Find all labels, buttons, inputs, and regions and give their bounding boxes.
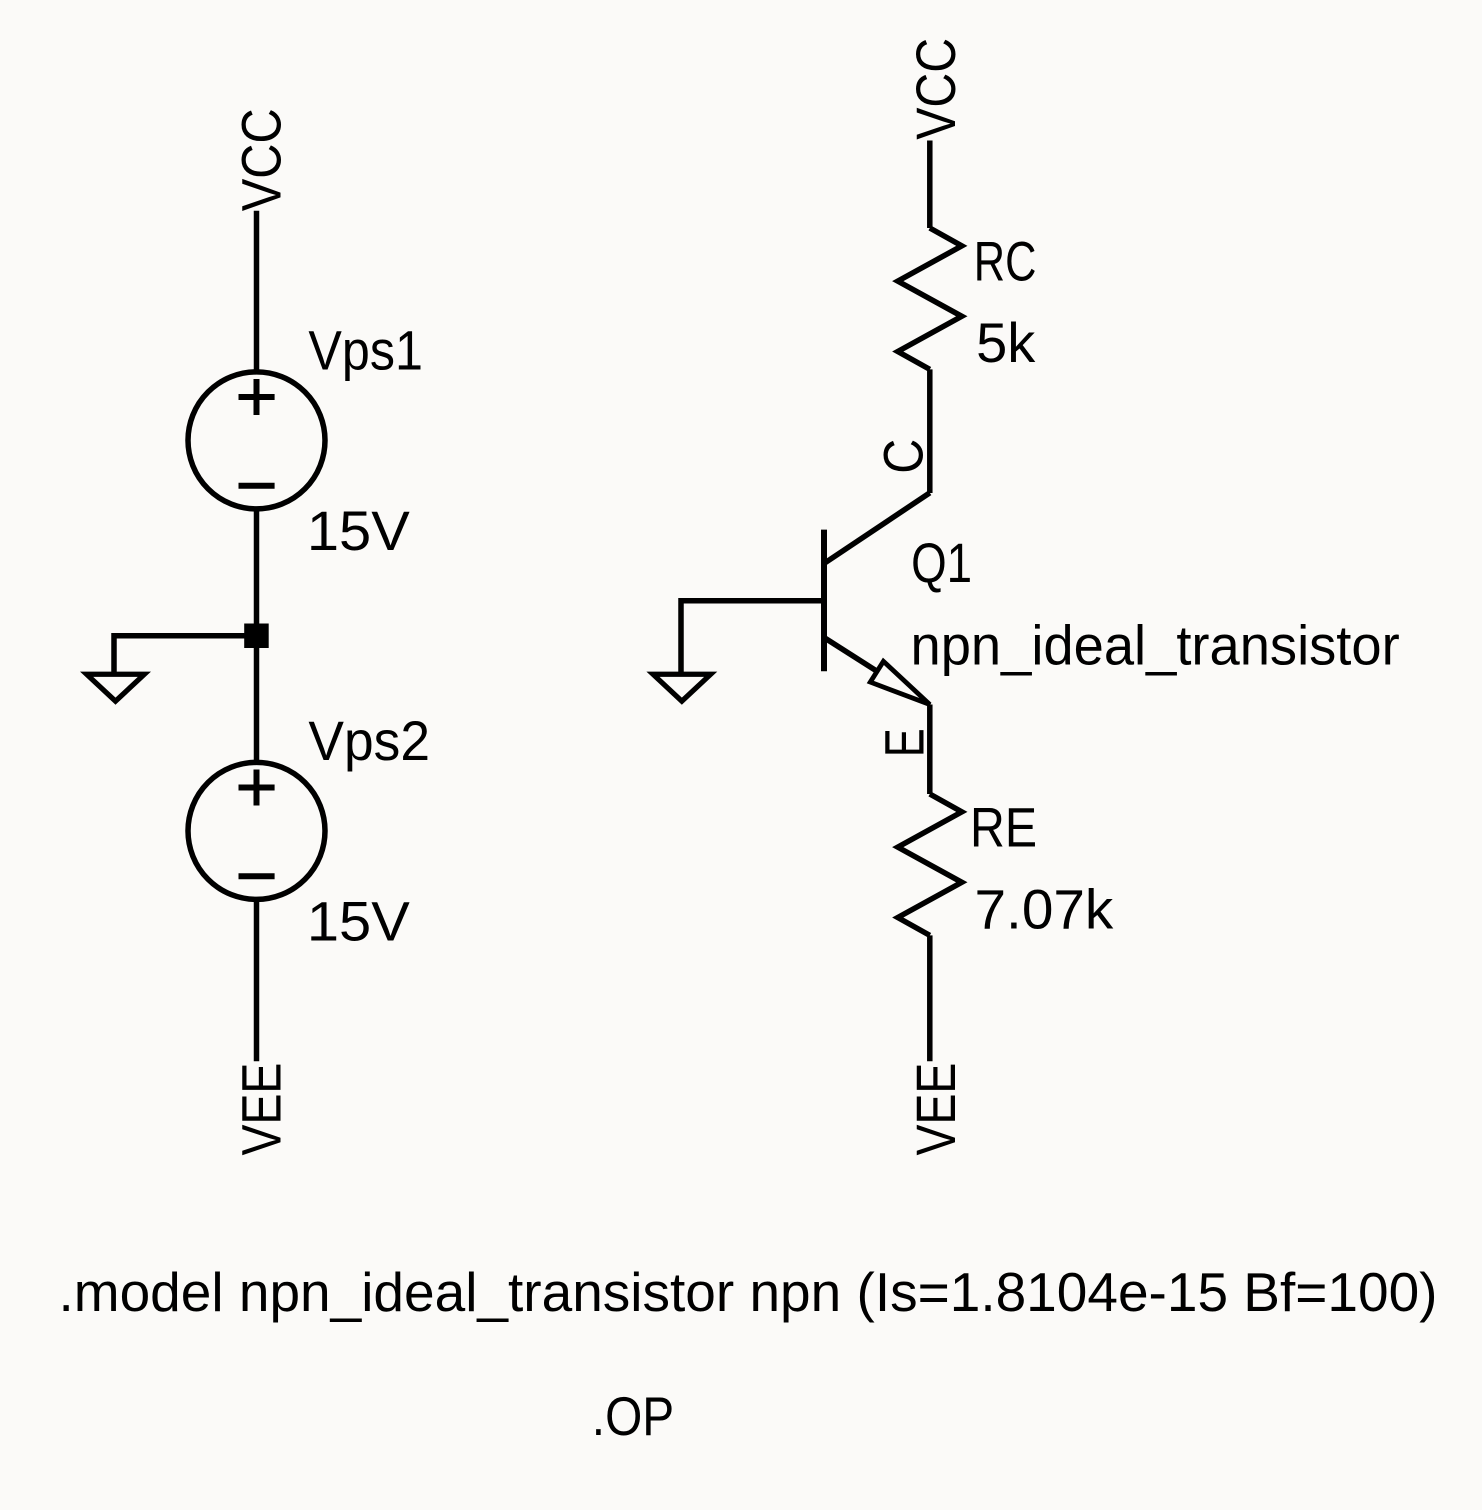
ground (base) — [653, 674, 711, 701]
wire junction to Vps2 — [254, 646, 260, 763]
svg-text:Vps2: Vps2 — [308, 709, 430, 772]
svg-text:VEE: VEE — [229, 1063, 292, 1156]
svg-text:RE: RE — [970, 796, 1037, 859]
wire base to ground — [681, 601, 824, 673]
wire Vps1 to junction — [254, 509, 260, 627]
wire VCC stub (right) — [927, 141, 933, 229]
ground (left) — [87, 674, 145, 701]
wire VCC stub (left) — [254, 211, 260, 372]
svg-text:7.07k: 7.07k — [975, 878, 1115, 941]
resistor RC — [898, 228, 962, 369]
svg-text:VEE: VEE — [904, 1063, 967, 1156]
svg-text:15V: 15V — [307, 890, 411, 953]
svg-text:15V: 15V — [307, 499, 411, 562]
svg-text:.model npn_ideal_transistor np: .model npn_ideal_transistor npn (Is=1.81… — [59, 1261, 1438, 1323]
voltage source Vps2 — [188, 762, 325, 899]
voltage source Vps1 — [188, 372, 325, 509]
svg-text:RC: RC — [974, 229, 1037, 292]
svg-text:5k: 5k — [976, 311, 1036, 374]
svg-text:VCC: VCC — [230, 108, 293, 211]
wire Vps2 to VEE — [254, 899, 260, 1061]
node junction (filled square) — [244, 624, 269, 649]
svg-text:Vps1: Vps1 — [308, 318, 423, 381]
transistor Q1 — [821, 530, 827, 672]
wire RC to collector — [927, 369, 933, 493]
svg-text:Q1: Q1 — [911, 531, 972, 594]
resistor RE — [898, 794, 962, 935]
svg-text:npn_ideal_transistor: npn_ideal_transistor — [911, 613, 1400, 676]
svg-text:.OP: .OP — [592, 1385, 674, 1447]
wire emitter to RE — [927, 705, 933, 795]
wire junction to ground — [114, 636, 257, 673]
svg-text:E: E — [872, 728, 935, 757]
svg-text:C: C — [872, 439, 935, 474]
svg-text:VCC: VCC — [904, 38, 967, 140]
wire RE to VEE — [927, 935, 933, 1061]
